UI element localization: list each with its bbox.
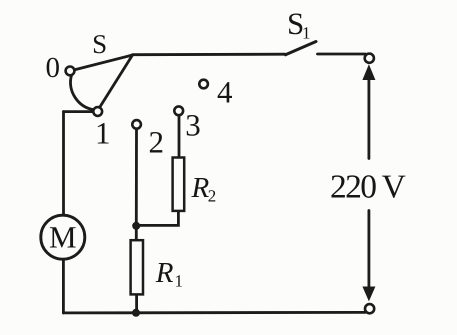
wire bottom horizontal bbox=[63, 311, 365, 314]
wire R1 bottom to bottom junction bbox=[135, 294, 138, 311]
node 1 circle bbox=[93, 107, 102, 116]
contact 0 circle bbox=[66, 67, 75, 76]
svg-text:3: 3 bbox=[185, 107, 201, 142]
wire motor to bottom corner bbox=[62, 259, 65, 313]
svg-text:1: 1 bbox=[95, 115, 111, 150]
svg-text:M: M bbox=[49, 220, 77, 255]
wire top left (apex to S1) bbox=[133, 53, 286, 56]
svg-text:R: R bbox=[191, 172, 210, 204]
contact 2 circle bbox=[132, 120, 141, 129]
switch S sweep arc bbox=[71, 75, 94, 110]
resistor R1 body bbox=[131, 240, 143, 294]
junction A dot bbox=[132, 222, 140, 230]
contact 3 circle bbox=[174, 106, 183, 115]
wire contact3 down to R2 bbox=[178, 115, 181, 157]
voltage arrowhead up bbox=[362, 64, 375, 80]
svg-text:2: 2 bbox=[149, 124, 165, 159]
switch S1 blade bbox=[286, 42, 317, 55]
contact 4 circle bbox=[199, 80, 208, 89]
svg-text:1: 1 bbox=[302, 24, 311, 43]
svg-text:4: 4 bbox=[217, 74, 233, 109]
wire R2 bottom to junction A bbox=[139, 211, 178, 226]
wire left vertical to motor bbox=[62, 112, 65, 216]
svg-text:2: 2 bbox=[208, 186, 217, 205]
terminal bottom circle bbox=[365, 304, 374, 313]
voltage arrow lower shaft bbox=[367, 211, 370, 290]
voltage arrow upper shaft bbox=[367, 77, 370, 159]
switch S arm upper (contact 0 to apex) bbox=[74, 55, 132, 70]
wire top right (S1 to terminal) bbox=[318, 53, 366, 56]
svg-text:R: R bbox=[155, 257, 174, 289]
switch S arm lower (apex to node 1) bbox=[99, 55, 132, 108]
wire contact2 down to junction A bbox=[135, 129, 138, 224]
svg-text:0: 0 bbox=[45, 52, 60, 84]
wire node1 to left corner bbox=[64, 110, 94, 113]
svg-text:220 V: 220 V bbox=[330, 168, 406, 205]
voltage arrowhead down bbox=[362, 287, 375, 302]
motor M circle bbox=[41, 215, 85, 259]
terminal top circle bbox=[365, 54, 374, 63]
svg-text:1: 1 bbox=[175, 271, 184, 290]
junction B dot (bottom) bbox=[132, 309, 140, 317]
svg-text:S: S bbox=[92, 29, 107, 59]
resistor R2 body bbox=[173, 158, 185, 211]
wire junction A to R1 top bbox=[135, 226, 138, 240]
